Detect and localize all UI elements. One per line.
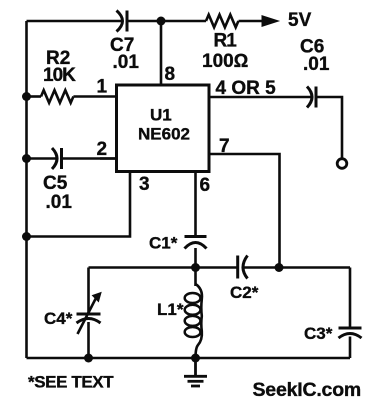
label 5V — [288, 10, 312, 31]
svg-text:R1: R1 — [214, 31, 238, 52]
power 5V arrow — [239, 16, 279, 27]
label C3 — [304, 324, 333, 343]
pin 1 label — [97, 77, 108, 98]
wire bottom rail — [27, 357, 351, 360]
svg-text:C1*: C1* — [149, 234, 178, 253]
wire pin 6 — [194, 171, 197, 236]
pin 4 label — [216, 78, 277, 99]
resistor R1 — [206, 15, 238, 28]
svg-text:C5: C5 — [43, 173, 68, 194]
capacitor C3 — [339, 268, 362, 359]
wire C1 to tank — [194, 248, 197, 268]
svg-text:*SEE TEXT: *SEE TEXT — [28, 373, 114, 392]
node tank top left junction — [191, 263, 200, 272]
node L1 bottom — [191, 354, 200, 363]
svg-text:2: 2 — [97, 139, 108, 160]
wire pin 2 — [100, 157, 117, 160]
resistor R2 — [27, 90, 116, 103]
svg-text:5V: 5V — [288, 10, 312, 31]
watermark SeekIC.com — [253, 379, 362, 401]
svg-text:100Ω: 100Ω — [202, 51, 248, 72]
wire top rail — [27, 20, 207, 23]
svg-text:.01: .01 — [303, 54, 330, 75]
svg-text:NE602: NE602 — [138, 125, 190, 144]
inductor L1 — [185, 268, 202, 359]
wire tank top rail — [89, 266, 351, 269]
label C4 — [44, 309, 73, 328]
IC U1 NE602 box — [117, 85, 210, 172]
wire pin 3 — [27, 171, 131, 237]
node pin8 junction — [157, 17, 166, 26]
label R2 value — [43, 48, 76, 86]
capacitor C1 — [185, 237, 207, 249]
svg-text:.01: .01 — [46, 192, 73, 213]
svg-text:L1*: L1* — [157, 300, 184, 319]
svg-text:6: 6 — [200, 175, 211, 196]
wire pin 7 — [209, 154, 280, 268]
svg-text:10K: 10K — [43, 65, 76, 86]
svg-text:1: 1 — [97, 77, 108, 98]
node C5 tap — [22, 154, 31, 163]
ground — [184, 358, 207, 386]
wire pin 8 — [160, 21, 163, 85]
node R2 tap — [22, 92, 31, 101]
label C2 — [230, 283, 259, 302]
node C4 bottom — [84, 354, 93, 363]
label R1 value — [202, 31, 248, 73]
terminal output circle — [337, 159, 347, 169]
pin 2 label — [97, 139, 108, 160]
svg-text:C2*: C2* — [230, 283, 259, 302]
pin 8 label — [165, 64, 176, 85]
node pin7 tank junction — [275, 263, 284, 272]
capacitor C7 — [117, 11, 128, 32]
label C1 — [149, 234, 178, 253]
capacitor C4 variable — [77, 268, 102, 359]
svg-text:SeekIC.com: SeekIC.com — [253, 379, 362, 401]
svg-text:.01: .01 — [113, 52, 140, 73]
wire left rail — [25, 21, 28, 358]
capacitor C5 — [27, 148, 116, 169]
label L1 — [157, 300, 184, 319]
capacitor C6 — [307, 87, 316, 108]
pin 3 label — [139, 174, 150, 195]
label C7 value — [110, 35, 139, 73]
wire C6 to terminal — [316, 97, 342, 158]
svg-text:C3*: C3* — [304, 324, 333, 343]
svg-text:4 OR 5: 4 OR 5 — [216, 78, 277, 99]
svg-text:3: 3 — [139, 174, 150, 195]
label C5 value — [43, 173, 72, 213]
svg-text:C4*: C4* — [44, 309, 73, 328]
svg-text:7: 7 — [219, 136, 230, 157]
label U1 — [138, 106, 190, 144]
label C6 value — [300, 37, 330, 76]
node pin3 tap — [22, 232, 31, 241]
label see text — [28, 373, 114, 392]
pin 6 label — [200, 175, 211, 196]
capacitor C2 — [238, 256, 248, 279]
svg-text:U1: U1 — [150, 106, 172, 125]
wire pin 4 — [209, 96, 311, 99]
pin 7 label — [219, 136, 230, 157]
svg-text:8: 8 — [165, 64, 176, 85]
